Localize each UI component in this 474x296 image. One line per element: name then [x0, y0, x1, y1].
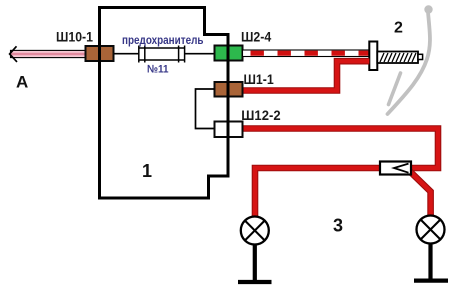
- svg-text:№11: №11: [147, 64, 169, 76]
- lamp left stem: [253, 244, 257, 281]
- lighter element 2: threaded body: [377, 52, 418, 64]
- wire right branch to lamp (red): [410, 172, 431, 217]
- bracket wire Ш1-1 to Ш12-2: [196, 89, 215, 129]
- inline connector chevron: [394, 164, 409, 173]
- svg-text:предохранитель: предохранитель: [122, 33, 204, 47]
- svg-text:3: 3: [333, 215, 343, 235]
- wire left branch to lamp (red): [255, 168, 380, 217]
- block edge segment over connectors: [227, 35, 230, 177]
- svg-text:Ш2-4: Ш2-4: [241, 29, 271, 45]
- svg-text:A: A: [16, 73, 28, 92]
- lamp left EL1: [241, 217, 269, 245]
- svg-text:2: 2: [394, 20, 403, 37]
- wire Ш12-2 to splice (red): [243, 129, 439, 169]
- arrowhead of wire A: [10, 46, 17, 62]
- connector Ш12-2: [215, 122, 243, 138]
- connector Ш1-1: [215, 82, 243, 97]
- lamp right base bar: [414, 279, 448, 283]
- striped wire to lighter: [243, 50, 370, 57]
- gray cord curve: [388, 12, 430, 114]
- lamp right EL2: [417, 216, 445, 244]
- lighter element 2: flange: [369, 42, 377, 71]
- wire A (pink): [11, 50, 86, 57]
- wire Ш1-1 to lighter (red): [243, 61, 370, 90]
- mounting block U1 (монтажный блок): [100, 8, 229, 199]
- lighter element 2: tip nub: [418, 54, 423, 59]
- gray cord short stroke: [389, 73, 401, 105]
- block left edge through connector Ш10-1: [98, 8, 101, 199]
- svg-text:Ш12-2: Ш12-2: [241, 107, 280, 123]
- lamp left base bar: [238, 280, 272, 284]
- fuse F11: [140, 49, 185, 60]
- svg-text:Ш1-1: Ш1-1: [244, 71, 274, 87]
- connector Ш10-1: [86, 46, 114, 61]
- lamp right stem: [428, 243, 432, 279]
- inline connector X1: [380, 162, 411, 175]
- gray cord blob: [424, 5, 432, 13]
- svg-text:1: 1: [142, 161, 152, 181]
- wire fuse link: [114, 53, 215, 55]
- connector Ш2-4: [215, 46, 243, 61]
- block right edge through connector Ш2-4: [227, 35, 230, 177]
- svg-text:Ш10-1: Ш10-1: [56, 28, 93, 44]
